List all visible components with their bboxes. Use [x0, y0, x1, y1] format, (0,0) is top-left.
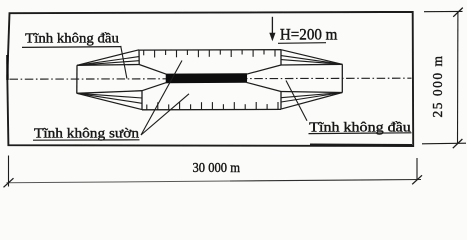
left end strip bottom edge — [77, 91, 142, 94]
side clearance rectangle top edge — [139, 49, 281, 51]
leader line of top-left label — [121, 46, 127, 79]
runway strip (solid bar) — [166, 74, 246, 83]
right dimension top oblique tick — [453, 8, 463, 17]
left end strip left edge — [76, 65, 78, 93]
boundary box of clearance area — [7, 12, 413, 146]
down arrow head of H label — [269, 33, 275, 41]
thicker scan segment of bottom border — [310, 143, 412, 146]
bottom dimension left oblique tick — [4, 178, 14, 187]
leader line A of side clearance label — [141, 61, 182, 136]
darker scan segment of left border — [6, 55, 8, 80]
right bottom fan middle line 2 — [281, 93, 342, 98]
right dimension extension line top — [424, 10, 463, 12]
right top fan middle line 1 — [281, 56, 342, 65]
right top fan outer line — [281, 50, 342, 65]
left top fan middle line 1 — [77, 57, 139, 66]
right top fan middle line 2 — [281, 60, 342, 65]
leader line B of side clearance label — [141, 94, 189, 135]
underline of top-left label — [22, 46, 121, 49]
svg-text:Tĩnh không sườn: Tĩnh không sườn — [34, 126, 139, 141]
right bottom fan outer line — [281, 93, 342, 110]
side clearance rectangle left edge upper segment — [138, 50, 140, 65]
svg-text:Tĩnh không đầu: Tĩnh không đầu — [25, 32, 119, 47]
left top fan middle line 2 — [77, 61, 139, 66]
bottom dimension line 30000 right part — [230, 180, 421, 182]
left bottom fan outer line — [77, 93, 142, 109]
left end strip top edge — [77, 64, 139, 67]
bottom dimension extension line left — [8, 156, 10, 187]
bottom dimension right oblique tick — [412, 175, 422, 184]
side clearance rectangle right edge lower segment — [280, 92, 282, 110]
runway axis centerline — [10, 78, 412, 79]
hatch ticks on bottom edge — [147, 102, 278, 110]
right bottom funnel line to runway tip — [247, 82, 282, 91]
side clearance rectangle right edge upper segment — [280, 50, 282, 65]
left bottom fan middle line 2 — [77, 93, 142, 98]
left top fan outer line — [77, 50, 139, 66]
right top funnel line to runway tip — [247, 65, 282, 74]
leader line of bottom-right label — [286, 81, 307, 121]
right end strip right edge — [341, 64, 343, 92]
right end strip bottom edge — [281, 92, 342, 93]
right dimension line 25000 — [457, 12, 459, 143]
left top funnel line to runway tip — [139, 65, 166, 75]
right end strip top edge — [281, 63, 342, 66]
svg-text:H=200 m: H=200 m — [280, 27, 338, 44]
svg-text:25 000 m: 25 000 m — [430, 54, 445, 117]
bottom dimension extension line right — [416, 158, 418, 180]
underline of H label — [278, 42, 326, 45]
bottom dimension line 30000 — [7, 181, 231, 183]
side clearance rectangle bottom edge — [142, 108, 281, 110]
left bottom funnel line to runway tip — [142, 83, 166, 91]
right dimension bottom oblique tick — [453, 139, 463, 148]
underline of bottom-right label — [309, 132, 412, 135]
right dimension extension line bottom — [422, 142, 466, 145]
right bottom fan middle line 1 — [281, 93, 342, 103]
left bottom fan middle line 1 — [77, 93, 142, 103]
side clearance rectangle left edge lower segment — [141, 91, 143, 110]
svg-text:30 000 m: 30 000 m — [193, 161, 241, 176]
underline of side clearance label — [33, 139, 140, 141]
down arrow shaft of H label — [271, 17, 273, 40]
hatch ticks on top edge — [144, 50, 275, 58]
